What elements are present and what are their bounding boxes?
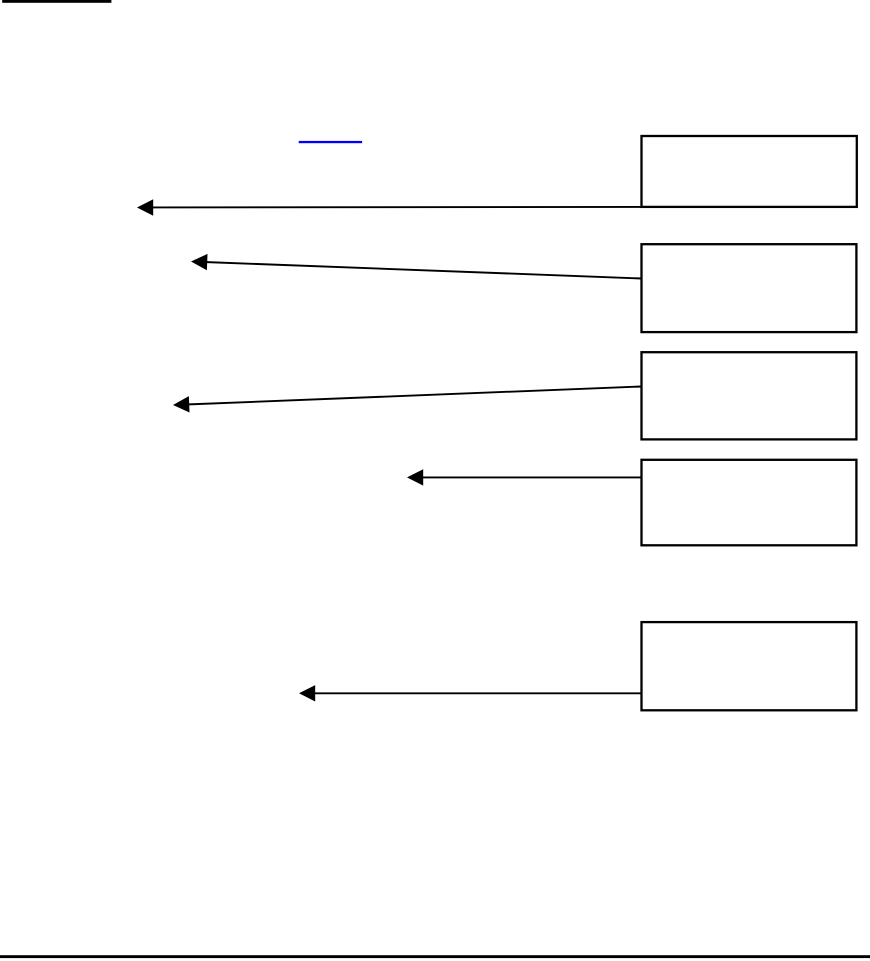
callout box 1	[642, 136, 857, 207]
callout box 2	[642, 244, 857, 332]
callout box 5	[642, 622, 857, 710]
footer rule (full width)	[0, 955, 870, 958]
leader arrow 1 head	[137, 199, 153, 215]
leader arrow 2 line	[204, 262, 642, 279]
leader arrow 2 head	[191, 253, 208, 270]
callout box 3	[642, 352, 857, 439]
leader arrow 5 line	[312, 692, 642, 694]
callout box 4	[642, 460, 857, 546]
leader arrow 5 head	[299, 685, 315, 701]
hyperlink underline (blue)	[299, 141, 362, 143]
leader arrow 4 line	[420, 476, 642, 478]
leader arrow 1 line	[150, 206, 642, 209]
leader arrow 3 line	[186, 387, 642, 405]
leader arrow 4 head	[407, 469, 423, 485]
heading underline (top-left, clipped at page top)	[2, 0, 111, 3]
leader arrow 3 head	[173, 396, 190, 413]
